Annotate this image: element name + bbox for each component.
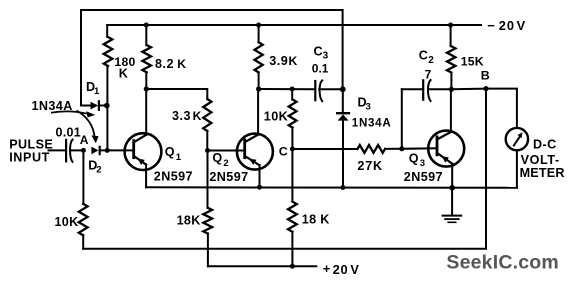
svg-text:+: + [323,261,331,276]
svg-text:0.1: 0.1 [312,62,329,76]
svg-text:3: 3 [323,51,329,62]
svg-text:INPUT: INPUT [9,151,50,165]
svg-text:3: 3 [420,158,425,169]
svg-text:10K: 10K [55,215,79,229]
svg-text:K: K [289,54,298,68]
svg-text:20: 20 [333,262,349,277]
svg-text:1: 1 [176,152,182,163]
svg-text:27K: 27K [357,159,383,173]
svg-text:−: − [487,18,495,33]
svg-text:18K: 18K [177,213,201,227]
svg-text:2: 2 [223,158,228,169]
svg-text:K: K [193,109,202,123]
svg-text:2N597: 2N597 [404,170,443,184]
svg-text:VOLT-: VOLT- [521,153,560,167]
svg-text:7: 7 [425,67,432,81]
svg-text:15K: 15K [461,54,484,68]
svg-text:METER: METER [520,166,565,180]
svg-text:1N34A: 1N34A [352,116,392,129]
svg-text:1N34A: 1N34A [32,99,73,113]
svg-text:2: 2 [96,165,101,176]
svg-text:1: 1 [94,86,100,97]
svg-text:A: A [80,133,89,147]
svg-text:Q: Q [409,152,419,166]
svg-text:SeekIC.com: SeekIC.com [446,251,559,273]
svg-text:K: K [119,66,128,80]
svg-text:C: C [314,44,323,58]
svg-text:C: C [279,144,288,158]
svg-text:Q: Q [212,151,222,165]
svg-text:V: V [350,262,359,277]
svg-text:3.3: 3.3 [172,109,191,123]
svg-text:3: 3 [366,102,371,113]
svg-text:3.9: 3.9 [269,54,288,68]
svg-text:2: 2 [428,55,434,66]
svg-text:2N597: 2N597 [154,169,193,183]
svg-text:D-C: D-C [533,137,557,151]
svg-text:V: V [517,18,526,33]
svg-text:Q: Q [165,145,175,159]
svg-text:2N597: 2N597 [209,170,248,184]
svg-text:C: C [419,49,428,63]
svg-text:20: 20 [499,18,515,33]
svg-text:8.2: 8.2 [155,57,174,71]
svg-text:PULSE: PULSE [9,138,53,152]
svg-text:K: K [177,57,186,71]
svg-text:18 K: 18 K [302,212,330,226]
svg-text:B: B [481,69,490,83]
svg-text:10K: 10K [264,110,288,124]
svg-text:0.01: 0.01 [56,126,82,140]
